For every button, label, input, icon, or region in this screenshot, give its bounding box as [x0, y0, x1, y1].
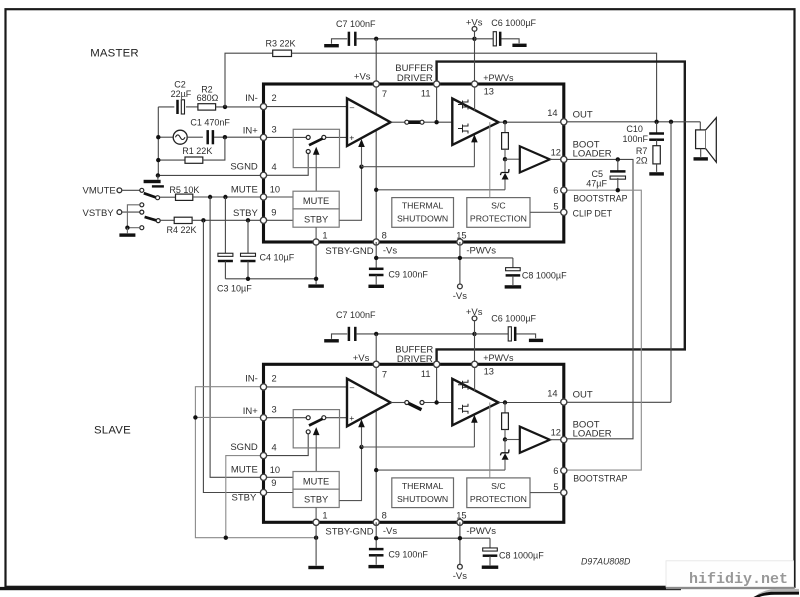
svg-text:13: 13: [484, 367, 494, 377]
wire pin2 to op-amp inverting input (master): [267, 106, 347, 108]
zener diode SC (slave): [504, 440, 506, 453]
svg-text:12: 12: [551, 428, 561, 438]
stby bus master to slave: [203, 220, 263, 492]
svg-text:6: 6: [553, 466, 558, 476]
svg-text:–: –: [350, 103, 355, 112]
pin 7 +Vs (slave): [373, 361, 379, 367]
wire op-amp output to link switch (slave): [391, 402, 405, 404]
wire slave SGND tie: [226, 456, 264, 538]
wire pin8 pin15 -Vs rail (slave): [375, 522, 377, 548]
capacitor C2 22uF: [158, 106, 174, 108]
op-amp input stage (master): [347, 98, 391, 146]
pin 13 +PWVs (master): [472, 81, 478, 87]
pin 9 STBY (master): [260, 217, 266, 223]
ground C7 (master): [332, 39, 348, 44]
wire +Vs to pin13 (master): [474, 39, 476, 84]
wire slave IN+ tie: [195, 416, 263, 418]
pin 2 IN- (master): [260, 104, 266, 110]
capacitor C4 10uF stby: [247, 220, 249, 254]
pin 7 +Vs (master): [373, 81, 379, 87]
VSTBY switch blade: [145, 217, 157, 221]
pin 12 boot loader (master): [561, 156, 567, 162]
power output stage triangle (slave): [452, 379, 498, 426]
junction -Vs pin8 (master): [374, 256, 378, 260]
wire pin1 to ground: [315, 242, 317, 284]
svg-text:13: 13: [484, 86, 494, 96]
svg-text:-PWVs: -PWVs: [466, 526, 496, 537]
capacitor C6 1000uF (master): [475, 38, 494, 40]
junction slave sgnd rail: [224, 536, 228, 540]
boot loader buffer triangle (slave): [520, 427, 550, 453]
svg-text:47µF: 47µF: [586, 178, 607, 188]
svg-text:MUTE: MUTE: [303, 476, 329, 486]
wire slave OUT to master OUT: [564, 401, 671, 403]
pin 4 SGND (slave): [260, 453, 266, 459]
svg-text:STBY-GND: STBY-GND: [325, 246, 373, 257]
svg-text:C9 100nF: C9 100nF: [388, 550, 428, 560]
MUTE block (slave): [293, 472, 339, 490]
ground pin1: [308, 284, 324, 287]
svg-text:2: 2: [272, 374, 277, 384]
wire pin8 pin15 -Vs rail (master): [375, 242, 377, 268]
svg-text:5: 5: [553, 482, 558, 492]
mute switch box (slave): [293, 410, 339, 448]
junction C3 tap: [223, 195, 227, 199]
svg-text:15: 15: [456, 230, 466, 240]
wire op-amp output to link switch (master): [391, 121, 405, 123]
pin 6 bootstrap (slave): [561, 467, 567, 473]
wire pin10 to MUTE block (master): [267, 196, 293, 198]
svg-text:8: 8: [382, 230, 387, 240]
internal +Vs rail pin7 to pin8 (slave): [375, 364, 377, 522]
output stage to pin14 wire (master): [499, 121, 564, 123]
svg-text:STBY: STBY: [231, 493, 256, 504]
ground C8 (master): [505, 285, 522, 288]
svg-text:SGND: SGND: [230, 162, 258, 173]
IC TDA7293 package outline (master): [264, 84, 564, 242]
THERMAL SHUTDOWN block (master): [392, 198, 454, 228]
svg-text:SLAVE: SLAVE: [94, 424, 131, 436]
svg-text:STBY: STBY: [304, 214, 328, 224]
zener diode SC (master): [504, 159, 506, 172]
svg-text:4: 4: [272, 162, 277, 172]
pin 2 IN- (slave): [260, 384, 266, 390]
svg-text:+Vs: +Vs: [466, 307, 483, 318]
pin 8 -Vs (slave): [373, 519, 379, 525]
svg-text:VSTBY: VSTBY: [83, 208, 115, 219]
svg-text:7: 7: [382, 369, 387, 379]
junction stand-by control (slave): [359, 445, 363, 449]
mute switch lower contact (slave): [306, 430, 310, 434]
wire C7 to +Vs (master): [356, 38, 474, 40]
wire mute switch to op-amp non-inverting input (master): [326, 136, 347, 138]
pin 12 boot loader (slave): [561, 437, 567, 443]
svg-text:-Vs: -Vs: [383, 526, 398, 537]
STBY block (slave): [293, 489, 339, 507]
svg-text:CLIP DET: CLIP DET: [573, 209, 613, 219]
pin 1 STBY-GND (slave): [313, 519, 319, 525]
wire cap ground rail: [225, 278, 316, 280]
svg-text:R3 22K: R3 22K: [266, 39, 296, 49]
wire pin6 to slave pin6 bootstrap: [564, 190, 642, 470]
junction slave pin1 rail: [314, 536, 318, 540]
mute control arrow (slave): [315, 434, 317, 471]
svg-text:IN+: IN+: [243, 126, 259, 137]
svg-text:LOADER: LOADER: [573, 148, 612, 159]
wire pin4 SGND to switch lower contact (slave): [267, 434, 309, 456]
junction IN+ node: [223, 135, 227, 139]
wire slave out vertical: [670, 122, 672, 403]
VMUTE switch: [140, 188, 144, 192]
svg-text:-Vs: -Vs: [383, 246, 398, 257]
junction rail (master): [374, 188, 378, 192]
pin 15 -PWVs (slave): [457, 519, 463, 525]
ground VSTBY: [126, 228, 128, 234]
svg-text:C4 10µF: C4 10µF: [260, 252, 295, 262]
wire pin4 SGND to switch lower contact (master): [267, 154, 309, 176]
svg-text:IN-: IN-: [245, 93, 258, 104]
wire VMUTE: [122, 189, 140, 191]
MOSFET glyph lower (slave): [458, 404, 468, 414]
op-amp input stage (slave): [347, 379, 391, 427]
junction C4 rail: [246, 277, 250, 281]
junction zobel: [654, 120, 658, 124]
svg-text:+PWVs: +PWVs: [483, 73, 514, 83]
capacitor C1 470nF: [206, 130, 209, 144]
junction pin11 tap (master): [434, 120, 438, 124]
svg-text:-Vs: -Vs: [453, 571, 468, 582]
junction output node (slave): [503, 400, 507, 404]
master/slave link switch (master): [424, 121, 452, 123]
pin 1 STBY-GND (master): [313, 239, 319, 245]
IC TDA7293 package outline (slave): [264, 364, 564, 522]
capacitor C5 47uF bootstrap: [617, 159, 619, 171]
wire VSTBY: [122, 211, 140, 213]
boot loader buffer triangle (master): [520, 146, 550, 172]
junction C5 top: [616, 157, 620, 161]
pin 13 +PWVs (slave): [472, 361, 478, 367]
wire pin11 buffer driver tap (slave): [436, 364, 438, 402]
ground R7: [649, 172, 664, 175]
internal resistor to SC sense (slave): [504, 403, 506, 413]
junction SGND: [156, 173, 160, 177]
MOSFET glyph upper (slave): [458, 380, 468, 390]
svg-text:BOOTSTRAP: BOOTSTRAP: [573, 193, 627, 203]
capacitor C8 1000uF (slave): [489, 538, 491, 549]
STBY block (master): [293, 209, 339, 227]
MOSFET glyph upper (master): [458, 100, 468, 110]
+Vs terminal (master): [472, 27, 477, 32]
svg-text:+: +: [349, 133, 354, 143]
svg-text:11: 11: [421, 369, 431, 379]
wire pin9 to STBY block (master): [267, 219, 293, 221]
svg-text:LOADER: LOADER: [573, 429, 612, 440]
enable line to power stage (master): [362, 166, 475, 168]
svg-text:10: 10: [270, 465, 280, 475]
svg-text:+: +: [349, 413, 354, 423]
svg-text:2Ω: 2Ω: [636, 155, 648, 165]
junction -PWVs pin15 (master): [458, 256, 462, 260]
svg-text:9: 9: [271, 208, 276, 218]
svg-text:C8 1000µF: C8 1000µF: [522, 270, 567, 280]
resistor R2 680ohm: [198, 104, 216, 110]
junction STBY bus: [201, 218, 205, 222]
wire pin11 buffer driver tap (master): [436, 84, 438, 122]
resistor R1 22K: [158, 159, 185, 161]
svg-text:MASTER: MASTER: [90, 48, 139, 60]
feedback wire to OUT: [292, 53, 657, 122]
+Vs terminal (slave): [472, 316, 477, 321]
svg-text:SHUTDOWN: SHUTDOWN: [397, 494, 448, 504]
wire to pin7 (master): [375, 39, 377, 84]
svg-text:C10: C10: [626, 124, 643, 134]
pin 15 -PWVs (master): [457, 239, 463, 245]
-Vs terminal (slave): [458, 564, 463, 569]
wire pin12 to slave pin12: [564, 159, 633, 438]
wire buffer to pin12 (master): [550, 158, 564, 160]
svg-text:680Ω: 680Ω: [197, 93, 219, 103]
pin 10 MUTE (slave): [260, 474, 266, 480]
S/C sense line (master): [489, 122, 491, 197]
svg-text:SHUTDOWN: SHUTDOWN: [397, 214, 448, 224]
mute control arrow (master): [315, 154, 317, 191]
pin 14 OUT (slave): [561, 399, 567, 405]
S/C to pin5 wire (master): [530, 211, 564, 213]
junction pin1 rail: [314, 277, 318, 281]
VSTBY contacts: [140, 203, 144, 207]
resistor R5 10K: [176, 194, 193, 200]
junction +Vs (master): [472, 37, 476, 41]
enable arrow op-amp (master): [361, 146, 363, 167]
svg-text:PROTECTION: PROTECTION: [470, 214, 527, 224]
svg-text:9: 9: [271, 478, 276, 488]
wire to bootloader buffer (master): [505, 158, 520, 160]
S/C PROTECTION block (slave): [467, 478, 530, 508]
capacitor C7 100nF (master): [348, 32, 351, 46]
svg-text:C6 1000µF: C6 1000µF: [491, 314, 536, 324]
wire to pin7 (slave): [375, 334, 377, 364]
MOSFET glyph lower (master): [458, 124, 468, 134]
svg-text:STBY: STBY: [304, 495, 328, 505]
pin 3 IN+ (master): [260, 134, 266, 140]
svg-text:S/C: S/C: [491, 481, 505, 491]
wire OUT to speaker: [564, 121, 701, 123]
wire C7 to +Vs (slave): [356, 333, 474, 335]
svg-text:12: 12: [551, 147, 561, 157]
svg-text:C7 100nF: C7 100nF: [336, 310, 376, 320]
pin 10 MUTE (master): [260, 194, 266, 200]
pin 9 STBY (slave): [260, 489, 266, 495]
ground C9 (slave): [368, 565, 384, 568]
junction slave inputs: [193, 415, 197, 419]
svg-text:14: 14: [547, 389, 557, 399]
svg-text:PROTECTION: PROTECTION: [470, 494, 527, 504]
pin 6 bootstrap (master): [561, 187, 567, 193]
wire zener to -Vs rail (slave): [376, 469, 505, 471]
svg-text:C8 1000µF: C8 1000µF: [499, 551, 544, 561]
S/C PROTECTION block (master): [467, 198, 530, 228]
wire switch to R4: [160, 219, 174, 221]
buffer driver link master pin11 to slave pin11: [437, 62, 685, 365]
svg-text:DRIVER: DRIVER: [397, 354, 433, 365]
power output stage triangle (master): [452, 99, 498, 146]
svg-text:6: 6: [553, 186, 558, 196]
svg-text:10: 10: [270, 185, 280, 195]
wire STBY block to pin1 (slave): [315, 508, 317, 523]
svg-text:+PWVs: +PWVs: [483, 353, 514, 363]
junction -Vs pin8 (slave): [374, 536, 378, 540]
svg-text:hifidiy.net: hifidiy.net: [689, 571, 788, 588]
enable line to power stage (slave): [362, 446, 475, 448]
wire buffer to pin12 (slave): [550, 439, 564, 441]
wire pin13 to output stage (slave): [474, 364, 476, 391]
svg-text:OUT: OUT: [573, 390, 593, 401]
junction rail (slave): [374, 468, 378, 472]
junction VSTBY ground: [125, 226, 129, 230]
svg-text:–: –: [350, 383, 355, 392]
svg-text:MUTE: MUTE: [231, 465, 258, 476]
capacitor C8 1000uF (master): [512, 258, 514, 269]
wire +Vs to pin13 (slave): [474, 334, 476, 364]
pin 5 clip det (slave): [561, 490, 567, 496]
S/C sense line (slave): [489, 403, 491, 478]
svg-text:D97AU808D: D97AU808D: [581, 556, 631, 566]
pin 4 SGND (master): [260, 172, 266, 178]
svg-text:1: 1: [322, 511, 327, 521]
wire pin9 to STBY block (slave): [267, 492, 293, 494]
svg-text:+Vs: +Vs: [353, 353, 370, 364]
svg-text:11: 11: [421, 89, 431, 99]
svg-text:IN+: IN+: [243, 406, 259, 417]
wire pin10 to MUTE block (slave): [267, 476, 293, 478]
svg-text:1: 1: [322, 230, 327, 240]
VSTBY terminal: [117, 210, 122, 215]
wire to bootloader buffer (slave): [505, 439, 520, 441]
watermark panel: [666, 561, 794, 587]
enable arrow power stage (master): [473, 141, 475, 166]
junction IN- node: [223, 105, 227, 109]
svg-text:7: 7: [382, 89, 387, 99]
S/C to pin5 wire (slave): [530, 492, 564, 494]
wire pin3 to mute switch (slave): [267, 417, 307, 419]
wire slave pin1 ground: [315, 522, 317, 565]
pin 5 clip det (master): [561, 209, 567, 215]
wire pin2 to op-amp inverting input (slave): [267, 386, 347, 388]
junction slave out tie: [669, 120, 673, 124]
svg-text:VMUTE: VMUTE: [83, 185, 116, 196]
-Vs terminal (master): [458, 284, 463, 289]
output stage to pin14 wire (slave): [499, 402, 564, 404]
svg-text:R4 22K: R4 22K: [167, 225, 197, 235]
master/slave link switch (slave): [424, 402, 452, 404]
svg-text:STBY-GND: STBY-GND: [325, 526, 373, 537]
resistor R4 22K: [174, 217, 192, 223]
ground SGND: [157, 175, 159, 179]
speaker: [699, 122, 701, 130]
junction output node (master): [503, 120, 507, 124]
svg-text:THERMAL: THERMAL: [402, 201, 444, 211]
capacitor C7 100nF (slave): [348, 327, 351, 341]
junction -PWVs pin15 (slave): [458, 536, 462, 540]
page curl: [757, 589, 799, 595]
enable arrow power stage (slave): [473, 422, 475, 447]
svg-text:R1 22K: R1 22K: [182, 146, 212, 156]
svg-text:S/C: S/C: [491, 201, 505, 211]
svg-text:14: 14: [547, 108, 557, 118]
pin 3 IN+ (slave): [260, 415, 266, 421]
wire pin13 to output stage (master): [474, 84, 476, 111]
svg-text:DRIVER: DRIVER: [397, 73, 433, 84]
ground slave pin1: [308, 566, 324, 569]
pin 8 -Vs (master): [373, 239, 379, 245]
junction stand-by control (master): [359, 165, 363, 169]
svg-text:C3 10µF: C3 10µF: [217, 283, 252, 293]
THERMAL SHUTDOWN block (slave): [392, 478, 454, 508]
pin 11 buffer driver (slave): [434, 361, 440, 367]
svg-text:5: 5: [553, 202, 558, 212]
capacitor C9 100nF (slave): [369, 548, 384, 551]
wire input bus left: [157, 107, 159, 175]
ground C8 (slave): [482, 566, 499, 569]
ground C7 (slave): [332, 334, 348, 339]
svg-text:C6 1000µF: C6 1000µF: [491, 18, 536, 28]
svg-text:+Vs: +Vs: [354, 71, 371, 82]
mute switch box (master): [293, 129, 339, 167]
svg-text:C2: C2: [174, 79, 186, 89]
svg-text:+Vs: +Vs: [466, 18, 483, 29]
svg-text:SGND: SGND: [230, 442, 258, 453]
svg-text:15: 15: [456, 511, 466, 521]
capacitor C9 100nF (master): [369, 268, 384, 271]
wire switch to R5: [160, 196, 176, 198]
svg-text:BOOTSTRAP: BOOTSTRAP: [573, 474, 627, 484]
stand-by control line (slave): [339, 447, 361, 501]
pin 11 buffer driver (master): [434, 81, 440, 87]
ground speaker: [694, 157, 708, 160]
junction C5 bottom: [616, 188, 620, 192]
wire SGND line: [158, 174, 263, 176]
svg-text:MUTE: MUTE: [231, 184, 258, 195]
capacitor C10 100nF zobel: [656, 122, 658, 134]
svg-text:22µF: 22µF: [171, 89, 192, 99]
wire VSTBY contact loop: [127, 205, 139, 228]
resistor R7 2ohm: [653, 146, 660, 164]
svg-text:MUTE: MUTE: [303, 196, 329, 206]
svg-text:8: 8: [382, 511, 387, 521]
svg-text:C1 470nF: C1 470nF: [190, 117, 230, 127]
svg-text:3: 3: [272, 124, 277, 134]
slave input tie wires: [195, 387, 316, 538]
enable arrow op-amp (slave): [361, 426, 363, 447]
capacitor C6 1000uF (slave): [475, 333, 509, 335]
svg-text:STBY: STBY: [233, 208, 258, 219]
internal +Vs rail pin7 to pin8 (master): [375, 84, 377, 242]
junction R1 left: [156, 158, 160, 162]
VMUTE terminal: [117, 188, 122, 193]
internal resistor to SC sense (master): [504, 122, 506, 132]
ground C9 (master): [368, 285, 384, 288]
bottom black bar: [0, 587, 681, 590]
mute bus master to slave: [210, 197, 263, 477]
junction MUTE bus: [208, 195, 212, 199]
junction C7 pin7 feed (slave): [374, 332, 378, 336]
junction boot node (master): [503, 157, 507, 161]
wire STBY block to pin1 (master): [315, 227, 317, 242]
svg-text:4: 4: [272, 443, 277, 453]
wire pin3 to mute switch (master): [267, 136, 307, 138]
junction C4 tap: [246, 218, 250, 222]
stand-by control line (master): [339, 167, 361, 221]
